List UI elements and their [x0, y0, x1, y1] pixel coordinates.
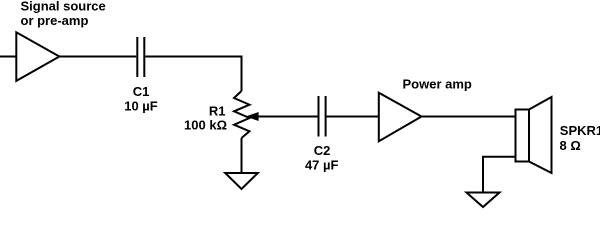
- svg-text:SPKR1: SPKR1: [560, 123, 600, 138]
- svg-text:10 µF: 10 µF: [124, 98, 158, 113]
- svg-text:R1: R1: [209, 104, 226, 119]
- svg-text:C2: C2: [314, 143, 331, 158]
- svg-text:Power amp: Power amp: [403, 77, 472, 92]
- svg-text:or pre-amp: or pre-amp: [21, 13, 89, 28]
- svg-text:Signal source: Signal source: [21, 0, 106, 13]
- svg-text:C1: C1: [133, 84, 150, 99]
- svg-text:8 Ω: 8 Ω: [560, 138, 581, 153]
- svg-text:100 kΩ: 100 kΩ: [184, 118, 227, 133]
- svg-text:47 µF: 47 µF: [305, 157, 339, 172]
